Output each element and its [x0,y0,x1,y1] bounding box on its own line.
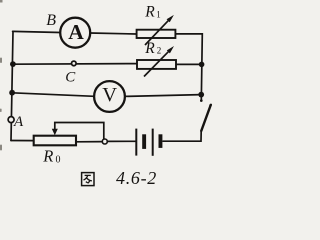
svg-text:C: C [65,70,76,86]
svg-text:2: 2 [157,45,162,55]
svg-text:A: A [13,114,24,130]
svg-text:B: B [46,12,56,29]
svg-text:0: 0 [56,155,61,166]
svg-text:R: R [144,4,155,21]
svg-text:V: V [102,84,117,106]
svg-text:1: 1 [156,9,161,19]
svg-text:4.6-2: 4.6-2 [116,168,157,188]
svg-text:A: A [68,20,84,44]
svg-text:R: R [42,147,53,166]
svg-text:R: R [144,40,155,57]
